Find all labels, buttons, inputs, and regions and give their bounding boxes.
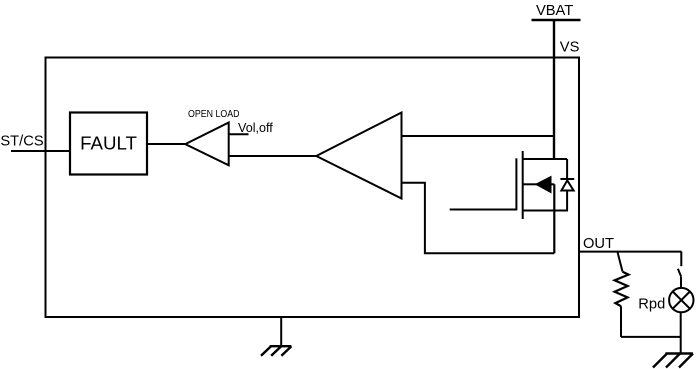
wire ST/CS input <box>11 150 71 152</box>
resistor Rpd bottom lead <box>620 306 622 337</box>
wire source down to feedback node <box>553 184 555 253</box>
resistor Rpd <box>615 272 629 307</box>
FAULT box <box>70 113 147 175</box>
wire comparator sense input <box>229 155 317 157</box>
ground IC stub <box>280 317 282 346</box>
transistor Q1 drain stub <box>523 158 567 160</box>
svg-text:OUT: OUT <box>583 236 614 252</box>
ground IC symbol <box>261 346 291 356</box>
wire VBAT to drain (VS net) <box>553 20 555 159</box>
svg-text:Vol,off: Vol,off <box>238 121 273 135</box>
wire lamp to ground <box>680 312 682 353</box>
comparator U2 open-load <box>185 123 228 166</box>
resistor Rpd top lead <box>618 252 623 272</box>
wire OUT pin <box>579 251 682 253</box>
svg-text:VS: VS <box>560 39 580 55</box>
svg-text:OPEN LOAD: OPEN LOAD <box>188 109 240 120</box>
wire resistor to lamp bottom <box>621 336 681 338</box>
transistor Q1 source stub <box>523 210 568 212</box>
transistor Q1 channel <box>522 151 524 219</box>
IC boundary rectangle <box>46 58 580 318</box>
svg-text:Rpd: Rpd <box>638 297 665 313</box>
body diode D1 <box>560 159 574 211</box>
svg-text:FAULT: FAULT <box>80 133 137 154</box>
ground load symbol <box>653 354 693 368</box>
wire op-amp feedback from source <box>402 183 555 253</box>
wire op-amp top input to VS <box>402 135 555 137</box>
svg-text:VBAT: VBAT <box>536 3 573 19</box>
op-amp U1 <box>316 113 401 199</box>
transistor Q1 body arrow <box>523 177 555 192</box>
transistor Q1 gate plate <box>515 158 517 210</box>
wire gate drive <box>450 209 517 211</box>
VBAT power rail bar <box>532 19 581 21</box>
svg-text:ST/CS: ST/CS <box>0 133 43 149</box>
lamp LA1 <box>669 288 693 312</box>
wire FAULT to comparator output <box>147 143 186 145</box>
wire Vol,off reference stub <box>229 133 249 135</box>
switch contact above lamp <box>678 252 681 288</box>
